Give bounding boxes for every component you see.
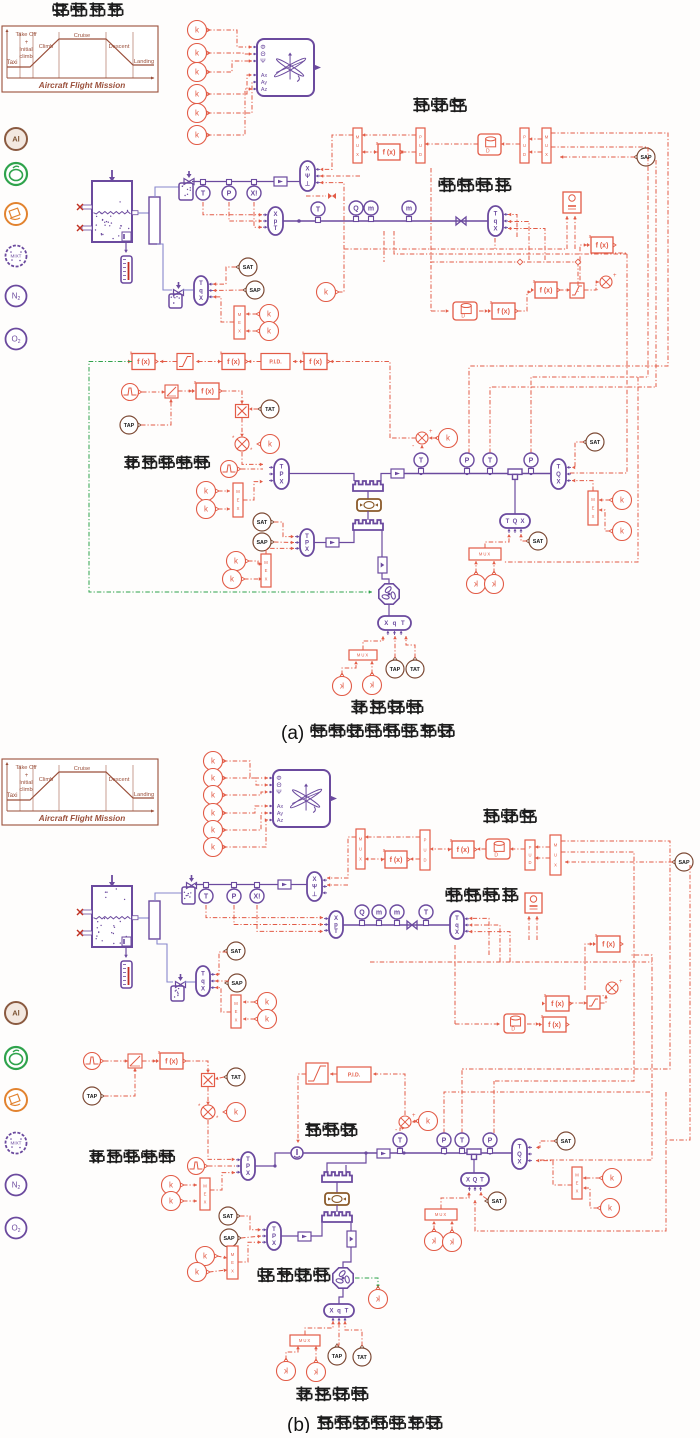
wire bottom mux loop (a) xyxy=(504,377,638,562)
svg-text:f (x): f (x) xyxy=(596,243,609,250)
svg-text:X: X xyxy=(199,296,203,302)
svg-text:TAT: TAT xyxy=(357,1355,367,1361)
wire SAT cabin (b) xyxy=(479,1192,487,1199)
svg-text:MUX: MUX xyxy=(299,1338,311,1343)
svg-text:(a): (a) xyxy=(281,723,304,744)
wire k5 to aircraft (a) xyxy=(207,82,252,113)
wire k4 to aircraft (a) xyxy=(207,73,252,94)
svg-text:MUX: MUX xyxy=(357,653,369,658)
wire pulse to limiter (b) xyxy=(104,1059,128,1063)
svg-text:P: P xyxy=(442,1137,447,1144)
svg-text:p: p xyxy=(274,219,278,225)
wire TAP to XqT (a) xyxy=(393,636,397,658)
label 冲压空气 (b) xyxy=(296,1386,367,1401)
bus gain block (a) xyxy=(274,177,287,186)
svg-text:X: X xyxy=(272,1241,276,1247)
wire acc input 2 (b) xyxy=(535,916,539,940)
wire k to error mixer (a) xyxy=(429,436,437,440)
attitude block X-Psi (a) xyxy=(300,161,320,191)
wire bottom mux loop (b) xyxy=(473,1092,666,1231)
ram outlet gain (a) xyxy=(378,557,387,573)
svg-text:SAT: SAT xyxy=(561,1139,572,1145)
cross vertical (a) xyxy=(577,262,579,292)
wire SAP bundle (b) xyxy=(565,860,673,864)
svg-text:Al: Al xyxy=(12,135,20,144)
bypass valve (b) xyxy=(325,1193,349,1205)
svg-text:D: D xyxy=(523,152,526,157)
ram MEX (b) xyxy=(227,1246,238,1279)
main line sensor T2 (b) xyxy=(455,1133,469,1154)
svg-text:X: X xyxy=(359,857,362,862)
svg-text:T: T xyxy=(201,972,205,978)
flow sensor m2 on feed pipe (a) xyxy=(402,201,416,222)
tank gas state block XpT (b) xyxy=(324,911,343,938)
svg-text:T: T xyxy=(488,457,493,464)
accumulator block (b) xyxy=(525,893,542,913)
svg-text:X: X xyxy=(279,480,283,486)
svg-text:M: M xyxy=(554,843,558,848)
svg-text:T: T xyxy=(272,1227,276,1233)
constant k ram 1 (b) xyxy=(196,1247,219,1266)
TAT circle (b) xyxy=(224,1068,245,1086)
svg-text:Az: Az xyxy=(277,818,284,824)
wire MUX to XqT (a) xyxy=(363,636,385,650)
ram exit MUX (a) xyxy=(349,650,377,660)
svg-text:X: X xyxy=(576,1189,579,1194)
wire canister to f(x) (a) xyxy=(479,309,488,313)
fig-b icon AI (aluminium material) xyxy=(5,1002,27,1024)
wire k cabin 2 (b) xyxy=(450,1221,454,1231)
constant k MEX2a (a) xyxy=(227,552,250,571)
wire f(x) chain link (a) xyxy=(517,290,531,311)
svg-text:Landing: Landing xyxy=(134,792,154,798)
label 电控阀 (b) xyxy=(305,1122,356,1136)
svg-text:TAP: TAP xyxy=(390,667,401,673)
constant k2 (a) xyxy=(188,44,211,63)
svg-text:D: D xyxy=(419,152,422,157)
wire SAP vertical (b) xyxy=(666,865,690,1140)
svg-text:f (x): f (x) xyxy=(201,389,214,396)
svg-text:SAP: SAP xyxy=(231,981,242,987)
svg-text:X: X xyxy=(312,877,316,883)
constant k1 (a) xyxy=(188,21,211,40)
wire TqX bottom down (a) xyxy=(494,238,496,249)
svg-text:T: T xyxy=(419,457,424,464)
membrane separator canister (b) xyxy=(486,839,510,859)
ram air source TPX2 (b) xyxy=(262,1222,281,1250)
outlet filter2 with valve (a) xyxy=(169,282,184,308)
constant k5 (a) xyxy=(188,104,211,123)
label 发动机引气 (b) xyxy=(89,1149,174,1163)
ambient SAP circle (a) xyxy=(634,148,655,166)
wire HX1 to valve (a) xyxy=(367,491,369,499)
main line gain (b) xyxy=(377,1149,390,1158)
wire canister to f(x)2 (b) xyxy=(477,847,486,851)
svg-text:q: q xyxy=(494,219,498,225)
TAT circle (a) xyxy=(258,400,279,418)
wire TqX right feeds (b) xyxy=(469,917,489,955)
vent line block TqX2 (a) xyxy=(194,276,213,305)
svg-text:T: T xyxy=(518,1145,522,1151)
svg-text:TAP: TAP xyxy=(124,423,135,429)
wire limiter to f(x) (a) xyxy=(178,389,192,393)
constant k vent 2 (b) xyxy=(254,1010,277,1029)
cross horizontal y249 (a) xyxy=(344,248,567,250)
svg-text:T: T xyxy=(455,916,459,922)
svg-text:T: T xyxy=(316,206,321,213)
vent MEX (a) xyxy=(234,306,245,339)
svg-text:X: X xyxy=(520,519,524,525)
membrane feed pipe (b) xyxy=(343,924,450,926)
svg-text:P: P xyxy=(227,190,232,197)
svg-text:X: X xyxy=(545,152,548,157)
wire f(x) to X block (b) xyxy=(186,1061,210,1073)
junction diamond 2 (a) xyxy=(575,259,581,265)
sensor T on feed pipe (a) xyxy=(311,202,325,223)
wire TQX feedback riser (a) xyxy=(570,253,627,473)
wire X down (b) xyxy=(206,1087,210,1105)
wire ram MEX to TPX2 (b) xyxy=(238,1240,261,1262)
svg-text:climb: climb xyxy=(19,54,32,60)
fig-a icon AI (aluminium material) xyxy=(5,128,27,150)
svg-text:P: P xyxy=(305,541,309,547)
sensor X on tank bus (b) xyxy=(250,883,264,904)
control chain saturation (a) xyxy=(177,354,193,370)
svg-text:T: T xyxy=(345,1309,349,1315)
wire cabin MUX to TQX (b) xyxy=(441,1192,471,1209)
wire TAT to X (b) xyxy=(215,1077,224,1080)
membrane inlet block TqX (b) xyxy=(450,911,469,939)
wire TAT to XqT (b) xyxy=(343,1321,362,1346)
multiplier X block (b) xyxy=(202,1074,215,1087)
wire SAT to TPX2 (a) xyxy=(274,522,294,538)
svg-text:f (x): f (x) xyxy=(548,1022,561,1029)
main line sensor T1 (a) xyxy=(414,453,428,474)
svg-text:U: U xyxy=(545,143,548,148)
svg-text:q: q xyxy=(199,289,203,295)
control chain f(x) in (a) xyxy=(300,351,330,370)
svg-text:Ay: Ay xyxy=(261,80,267,86)
wire k6 to aircraft (b) xyxy=(223,818,268,847)
svg-text:Take Off: Take Off xyxy=(15,765,36,771)
label 膜组件 (a) xyxy=(413,97,466,112)
wire k cabin 1 (b) xyxy=(432,1221,436,1230)
wire MUX to XqT (b) xyxy=(305,1321,335,1335)
svg-text:P: P xyxy=(529,457,534,464)
tank thermometer (b) xyxy=(121,961,132,988)
svg-text:E: E xyxy=(231,1260,234,1265)
constant k cabin 2 (a) xyxy=(485,571,504,594)
wire k2 to aircraft (a) xyxy=(207,52,252,56)
svg-text:M: M xyxy=(203,1184,207,1189)
ram exit MUX (b) xyxy=(290,1335,320,1346)
main line gain (a) xyxy=(391,469,404,478)
membrane inlet block TqX (a) xyxy=(488,206,508,236)
wire TqX right feed 2 (b) xyxy=(469,923,500,962)
wire to f(x) upper (a) xyxy=(580,243,587,290)
fuel tank (b) xyxy=(77,875,138,947)
wire P riser (b) xyxy=(444,1092,652,1133)
svg-text:Al: Al xyxy=(12,1009,20,1018)
flow sensor m1 on feed pipe (a) xyxy=(364,201,378,222)
main line sensor P1 (a) xyxy=(460,453,474,474)
wire mixer down to TPX (a) xyxy=(242,452,263,466)
svg-text:climb: climb xyxy=(19,787,32,793)
bleed f(x) (a) xyxy=(192,380,222,399)
wire sat to mixer (b) xyxy=(600,995,608,1003)
svg-text:X: X xyxy=(246,1171,250,1177)
constant k bleed (b) xyxy=(223,1103,246,1122)
svg-text:M: M xyxy=(575,1173,579,1178)
svg-text:M: M xyxy=(591,497,595,502)
ram line gain (a) xyxy=(326,538,339,547)
svg-text:TAT: TAT xyxy=(231,1075,241,1081)
wire up to valve (b) xyxy=(275,1153,291,1166)
label 冲压空气 (a) xyxy=(351,699,422,714)
feedback saturation (b) xyxy=(587,996,600,1009)
vent MEX (b) xyxy=(231,995,241,1028)
svg-text:E: E xyxy=(238,320,241,325)
wire MUX2 to PUD2 (a) xyxy=(529,137,542,141)
svg-text:E: E xyxy=(576,1181,579,1186)
flight mission profile box (b) xyxy=(2,759,158,825)
svg-text:Aircraft Flight Mission: Aircraft Flight Mission xyxy=(38,81,125,90)
svg-text:q: q xyxy=(393,621,397,627)
wire valve to HX2 (a) xyxy=(367,511,369,520)
O2 f(x) block (b) xyxy=(539,1014,569,1032)
svg-text:Q: Q xyxy=(359,909,365,916)
constant k vent 2 (a) xyxy=(256,322,279,341)
distribution tee (a) xyxy=(508,469,522,479)
wire TqX right feeds (a) xyxy=(508,213,517,237)
feedback mixer (a) xyxy=(596,273,617,294)
svg-text:m: m xyxy=(394,909,400,916)
ram outlet gain (b) xyxy=(347,1231,356,1247)
svg-text:X!: X! xyxy=(251,190,258,197)
wire saturation to mixer (a) xyxy=(584,280,599,290)
attitude block X-Psi (b) xyxy=(307,872,327,901)
TAP circle (a) xyxy=(120,416,141,434)
svg-text:SAT: SAT xyxy=(257,520,268,526)
fig-b icon air (orange) xyxy=(5,1089,27,1111)
svg-text:X: X xyxy=(356,152,359,157)
svg-text:U: U xyxy=(523,143,526,148)
svg-text:X: X xyxy=(201,987,205,993)
SAP vent (a) xyxy=(243,281,264,299)
svg-text:+: + xyxy=(25,773,29,779)
svg-text:U: U xyxy=(359,847,362,852)
constant k6 (a) xyxy=(188,126,211,145)
wire k3 to aircraft (a) xyxy=(207,59,252,72)
cabin branch TQX (a) xyxy=(500,514,530,533)
membrane PUD block 2 (a) xyxy=(520,128,529,163)
svg-text:T: T xyxy=(398,1137,403,1144)
SAT vent (b) xyxy=(224,942,245,960)
cabin MUX (a) xyxy=(469,548,501,560)
svg-text:X: X xyxy=(592,514,595,519)
svg-text:SAT: SAT xyxy=(590,440,601,446)
wire k ram 2 (b) xyxy=(209,1269,227,1273)
heat exchanger 1 (a) xyxy=(353,481,383,491)
membrane MUX block 2 (a) xyxy=(542,128,551,163)
constant k dist 2 (a) xyxy=(609,522,632,541)
wire pulse to TPX (a) xyxy=(241,468,263,470)
constant k cabin 2 (b) xyxy=(443,1229,462,1252)
svg-text:T: T xyxy=(305,534,309,540)
wire MEX to TQX (a) xyxy=(572,479,593,491)
wire fan to TqX out (a) xyxy=(388,605,390,616)
wire X-Psi input 2 (b) xyxy=(327,883,348,887)
setpoint k (a) xyxy=(435,429,458,448)
wire k dist 2 to MEX (b) xyxy=(583,1186,598,1208)
wire sensor X to XpT (b) xyxy=(257,905,323,933)
svg-text:f (x): f (x) xyxy=(383,150,396,157)
wire HX2 down to fan (a) xyxy=(381,530,383,557)
wire gain to HX2 (a) xyxy=(339,530,354,543)
svg-text:f (x): f (x) xyxy=(540,288,553,295)
svg-text:X: X xyxy=(493,227,497,233)
membrane separator canister (a) xyxy=(478,134,501,155)
svg-text:P: P xyxy=(424,838,427,843)
wire k to ram MEX b (a) xyxy=(244,577,262,581)
manifold block (b) xyxy=(149,901,160,939)
wire SAT to TPX2 (b) xyxy=(240,1216,261,1232)
bleed mixer diamond (a) xyxy=(232,436,253,454)
temperature error mixer (b) xyxy=(395,1113,416,1134)
svg-text:Ψ: Ψ xyxy=(276,789,281,796)
wire k to ram MEX a (a) xyxy=(248,561,262,566)
flight mission profile box (a) xyxy=(2,26,158,92)
svg-text:X: X xyxy=(305,167,309,173)
multiplier X block (a) xyxy=(236,405,249,418)
svg-text:X: X xyxy=(466,1178,470,1184)
svg-text:X!: X! xyxy=(254,893,261,900)
svg-text:q: q xyxy=(201,979,205,985)
ram line gain (b) xyxy=(298,1232,311,1241)
wire k dist 2 to MEX (a) xyxy=(599,508,610,531)
fig-a icon fuel (green) xyxy=(5,163,27,185)
SAT ram (b) xyxy=(219,1207,240,1225)
dist MEX block (b) xyxy=(572,1167,582,1199)
svg-text:X: X xyxy=(384,621,388,627)
O2 store canister (a) xyxy=(453,302,477,320)
fig-b icon O2 xyxy=(6,1218,27,1239)
svg-text:q: q xyxy=(337,1309,341,1315)
svg-text:Q: Q xyxy=(556,472,561,478)
svg-text:f (x): f (x) xyxy=(457,847,470,854)
svg-text:M: M xyxy=(231,1252,235,1257)
svg-text:SAT: SAT xyxy=(533,539,544,545)
wire P2 riser (b) xyxy=(493,1081,495,1133)
wire vent MEX up (b) xyxy=(215,986,231,1012)
wire TAP to limiter (a) xyxy=(141,399,173,425)
svg-text:P.I.D.: P.I.D. xyxy=(269,359,282,365)
constant k3 (a) xyxy=(188,63,211,82)
svg-text:T: T xyxy=(274,226,278,232)
bleed MEX block (b) xyxy=(200,1178,210,1210)
svg-text:X: X xyxy=(334,916,338,922)
wire k5 to aircraft (b) xyxy=(223,811,268,830)
HX1 right stub (b) xyxy=(345,1165,347,1172)
svg-text:f (x): f (x) xyxy=(497,309,510,316)
svg-text:T: T xyxy=(334,929,338,935)
svg-text:⊥: ⊥ xyxy=(312,891,317,898)
wire k2 to aircraft (b) xyxy=(223,778,268,787)
wire SAT to TQX (b) xyxy=(536,1141,555,1149)
cooling fan (b) xyxy=(333,1268,353,1288)
svg-text:U: U xyxy=(356,143,359,148)
flow sensor m2 on pipe (b) xyxy=(390,905,404,926)
wire T riser (b) xyxy=(461,1069,463,1133)
wire pulse to TPX (b) xyxy=(208,1165,235,1167)
membrane MUX block (a) xyxy=(353,128,362,163)
wire loop vertical (b) xyxy=(454,962,456,1024)
constant k MEX1a (a) xyxy=(197,482,220,501)
membrane f(x) block (b) xyxy=(381,848,410,868)
svg-text:(b): (b) xyxy=(287,1415,310,1433)
SAP vent (b) xyxy=(225,974,246,992)
svg-text:E: E xyxy=(592,506,595,511)
label 飞行包线 (flight envelope) xyxy=(53,2,122,16)
wire k to error mixer (b) xyxy=(412,1120,417,1124)
svg-text:M: M xyxy=(234,1001,238,1006)
fig-b icon fuel (green) xyxy=(5,1047,27,1069)
aircraft 6DOF flight block U1 (a) xyxy=(253,39,321,96)
wire T to error mixer (b) xyxy=(400,1126,405,1131)
svg-text:P.I.D.: P.I.D. xyxy=(348,1072,361,1078)
constant k vent 1 (a) xyxy=(256,305,279,324)
ram exit block XqT (b) xyxy=(324,1304,354,1322)
pulse source 1 (a) xyxy=(122,384,142,401)
svg-text:X: X xyxy=(231,1268,234,1273)
svg-text:TAP: TAP xyxy=(87,1094,98,1100)
svg-text:f (x): f (x) xyxy=(165,1059,178,1066)
wire f(x)2 to PUD1 (b) xyxy=(430,847,452,851)
svg-text:P: P xyxy=(246,1164,250,1170)
wire f(x) to MUX1 (a) xyxy=(362,150,378,154)
outlet filter2 with valve (b) xyxy=(171,974,186,1001)
svg-text:MUX: MUX xyxy=(479,552,491,557)
wire MUX2 to PUD2 (b) xyxy=(535,845,550,849)
wire TqX right feed 2 (a) xyxy=(508,220,529,260)
fig-b icon MIXT (gas mixture) xyxy=(6,1133,27,1154)
PID controller (b) xyxy=(337,1067,371,1082)
pulse source 2 (b) xyxy=(188,1158,208,1175)
sensor T on pipe (b) xyxy=(419,905,433,926)
svg-text:+: + xyxy=(429,429,433,435)
tank thermometer (a) xyxy=(121,256,132,283)
svg-text:Descent: Descent xyxy=(109,44,130,50)
wire f(x) in to PID (a) xyxy=(293,360,304,364)
wire acc input left (a) xyxy=(565,216,569,249)
fig-b icon N2 xyxy=(6,1175,27,1196)
wire SAP to TPX2 (a) xyxy=(274,541,294,545)
SAP ram (b) xyxy=(220,1229,241,1247)
wire TPX2 to gain (b) xyxy=(281,1235,298,1237)
main line (b) xyxy=(303,1152,512,1154)
wire PID to saturation (b) xyxy=(330,1072,337,1076)
svg-text:SAP: SAP xyxy=(223,1236,234,1242)
wire tank to manifold (b) xyxy=(138,917,149,919)
wire k1 to aircraft (b) xyxy=(223,761,268,780)
svg-text:P: P xyxy=(529,845,532,850)
fig-a icon MIXT (gas mixture) xyxy=(6,246,27,267)
wire TAP to XqT (b) xyxy=(337,1321,341,1345)
wire X-Psi input 2 (a) xyxy=(320,174,360,178)
svg-text:Initial: Initial xyxy=(19,47,32,53)
svg-text:P: P xyxy=(272,1234,276,1240)
wire manifold to filter1 (a) xyxy=(155,187,179,197)
